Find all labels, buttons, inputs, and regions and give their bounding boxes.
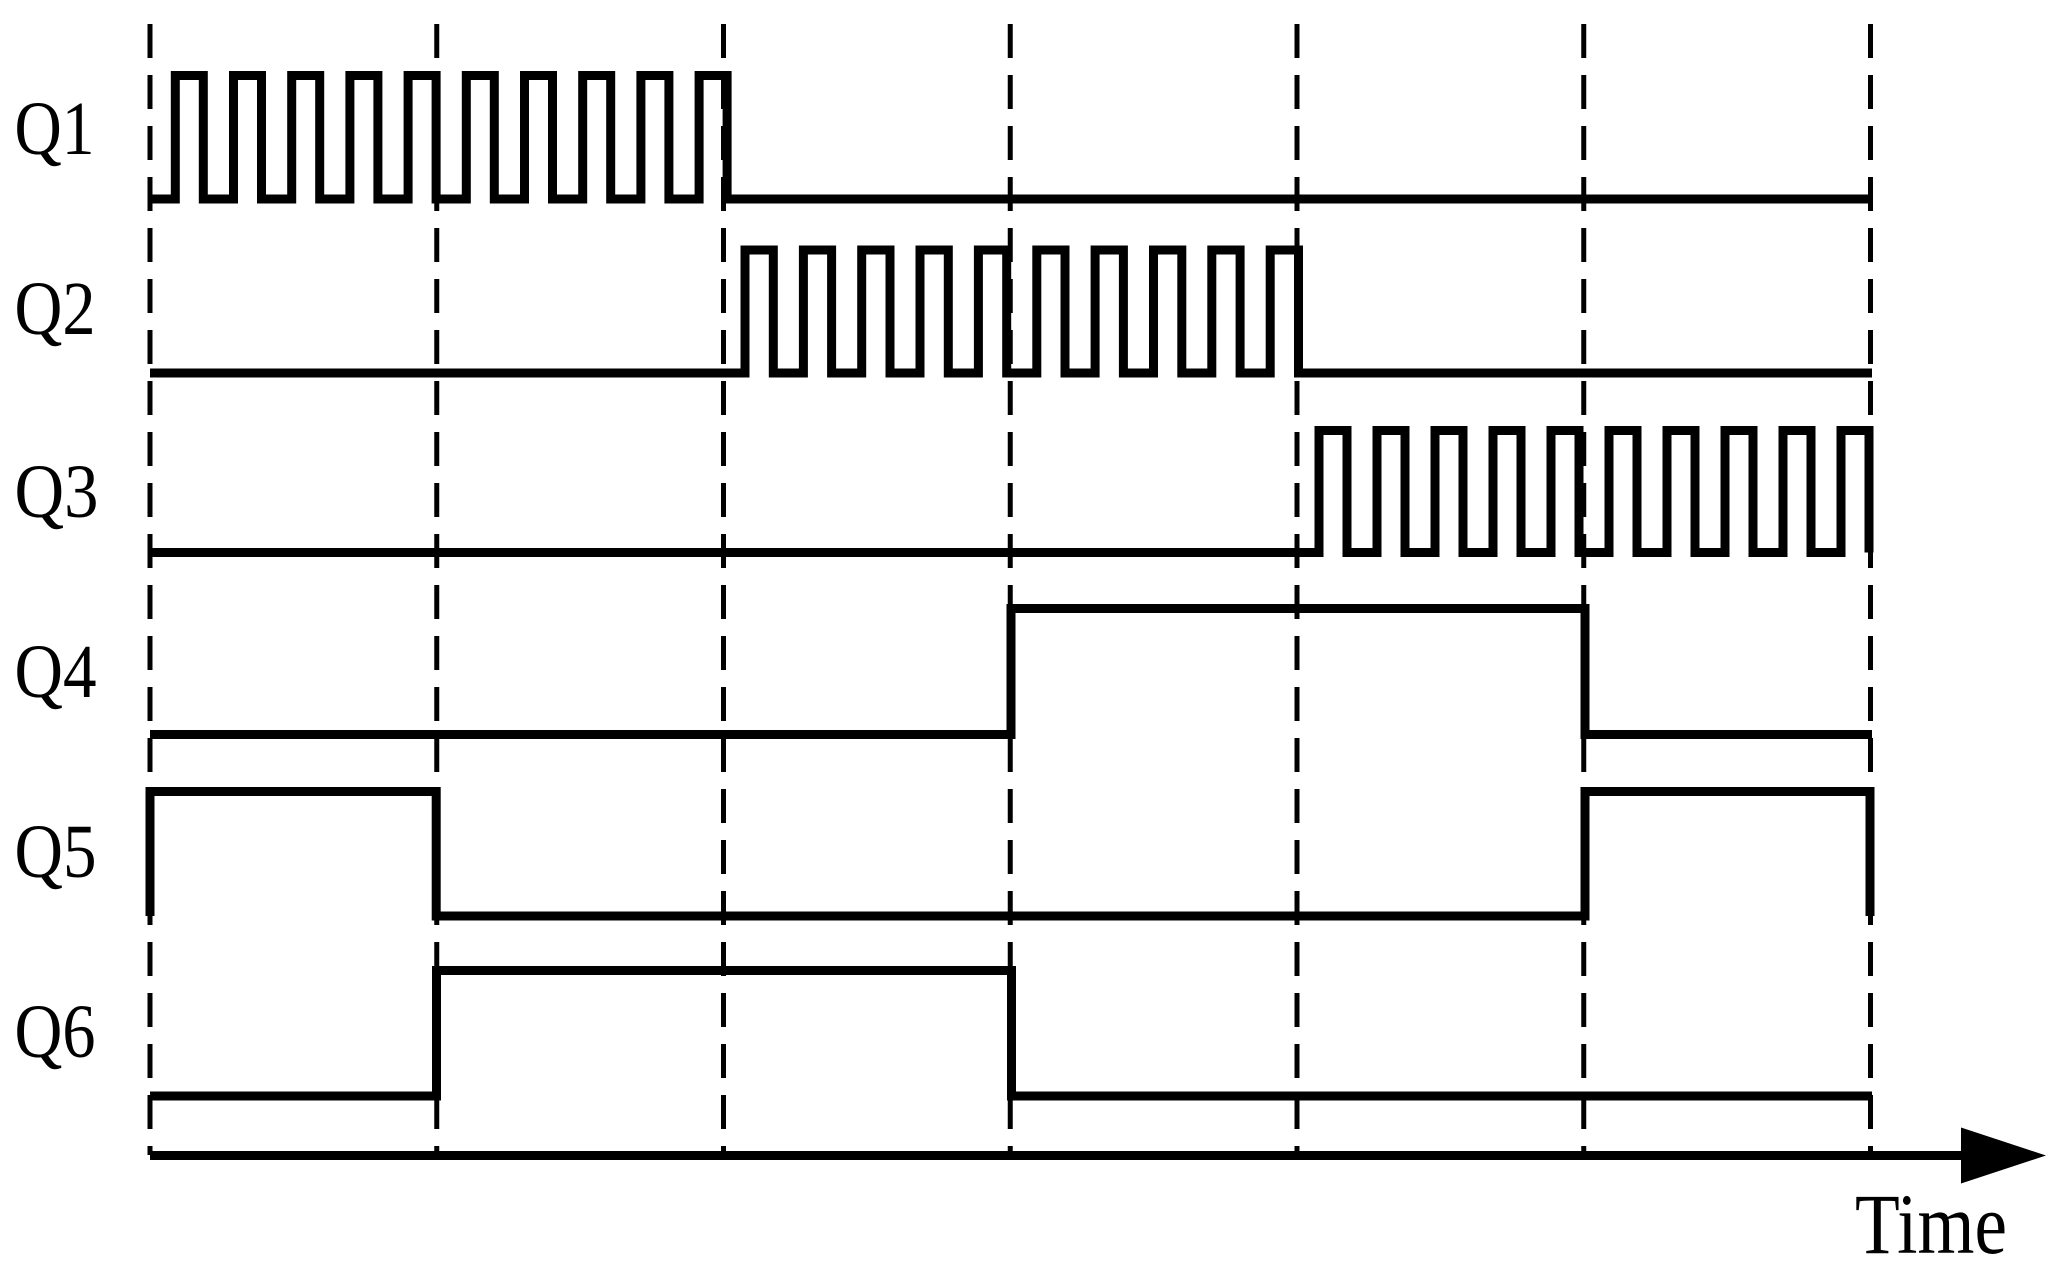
svg-text:Q5: Q5 (15, 810, 97, 894)
dashed gridline t0 (148, 24, 153, 1155)
dashed gridline t4 (1295, 24, 1300, 1155)
signal Q3 waveform (150, 431, 1869, 553)
signal Q2 waveform (150, 250, 1872, 373)
svg-text:Q1: Q1 (15, 87, 95, 171)
svg-text:Time: Time (1855, 1176, 2007, 1261)
dashed gridline t5 (1581, 24, 1586, 1155)
dashed gridline t1 (434, 24, 439, 1155)
svg-text:Q3: Q3 (15, 450, 99, 534)
svg-text:Q4: Q4 (15, 630, 97, 714)
signal Q6 waveform (150, 971, 1872, 1097)
axis arrowhead (1961, 1128, 2046, 1184)
dashed gridline t2 (721, 24, 726, 1155)
dashed gridline t3 (1008, 24, 1013, 1155)
signal Q4 waveform (150, 609, 1872, 735)
time axis (150, 1151, 1990, 1160)
signal Q5 waveform (150, 792, 1870, 917)
dashed gridline t6 (1868, 24, 1873, 1155)
signal Q1 waveform (150, 76, 1872, 200)
svg-text:Q2: Q2 (15, 267, 96, 351)
svg-text:Q6: Q6 (15, 990, 96, 1074)
